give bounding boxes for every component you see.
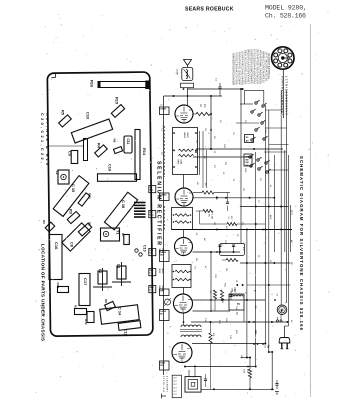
svg-text:1M: 1M [221,300,223,303]
svg-text:R5: R5 [61,110,66,116]
svg-text:C 18: C 18 [121,200,126,209]
svg-text:3D13: 3D13 [158,269,160,274]
svg-text:R2: R2 [42,220,46,224]
svg-text:VUHVHAC20BHC8B7: VUHVHAC20BHC8B7 [281,76,285,116]
svg-text:MODEL 9280,: MODEL 9280, [265,4,307,11]
svg-text:SW: SW [245,157,248,159]
svg-text:R6: R6 [113,139,117,143]
svg-text:OUT: OUT [173,378,177,380]
svg-text:SW: SW [245,162,248,164]
svg-text:OUT: OUT [173,391,177,393]
svg-text:AVC: AVC [269,215,272,220]
svg-text:02UO: 02UO [186,133,188,138]
svg-text:C13: C13 [143,245,147,252]
svg-text:8UCV: 8UCV [161,269,163,275]
svg-text:C 15: C 15 [71,184,76,193]
svg-text:4LDCNDM7: 4LDCNDM7 [166,376,169,392]
svg-text:12BE6: 12BE6 [160,108,167,110]
svg-text:12A: 12A [149,249,153,252]
svg-text:R7: R7 [121,233,125,237]
svg-text:VAC: VAC [149,213,154,216]
svg-text:HRVI: HRVI [177,160,179,165]
svg-text:C9: C9 [68,151,73,157]
svg-text:C16: C16 [54,242,59,250]
svg-text:C 14: C 14 [118,307,123,316]
svg-text:OUT: OUT [173,384,177,386]
svg-text:R4: R4 [97,143,102,149]
svg-text:47K: 47K [235,330,237,334]
svg-text:R14: R14 [142,148,147,156]
svg-text:R13: R13 [56,283,60,289]
svg-text:C17: C17 [83,278,88,286]
svg-text:OUT: OUT [173,388,177,390]
svg-text:R15: R15 [115,97,120,105]
svg-text:OSC: OSC [244,168,246,173]
svg-text:Ch. 528.166: Ch. 528.166 [265,12,306,19]
svg-text:C8: C8 [70,242,75,248]
svg-text:PH: PH [290,262,292,265]
svg-text:R8: R8 [104,299,108,303]
svg-text:47K: 47K [215,196,217,200]
svg-text:AUG2: AUG2 [183,133,186,138]
svg-text:OUT: OUT [173,381,177,383]
svg-text:117V: 117V [290,210,292,215]
svg-text:1/2: 1/2 [160,105,163,107]
svg-text:L3: L3 [117,264,121,268]
svg-text:SEARS ROEBUCK: SEARS ROEBUCK [185,7,234,13]
svg-text:LOCATION OF PARTS UNDER CHASSI: LOCATION OF PARTS UNDER CHASSIS [41,244,46,341]
svg-text:N10MR8TRDHHCLA: N10MR8TRDHHCLA [267,53,271,79]
svg-text:BC: BC [246,141,250,143]
svg-text:R3: R3 [69,209,74,215]
svg-text:R9: R9 [88,222,92,226]
svg-text:12BA6: 12BA6 [160,193,167,196]
svg-text:SH5: SH5 [231,289,233,293]
svg-text:SCHEMATIC DIAGRAM FOR SILVERTO: SCHEMATIC DIAGRAM FOR SILVERTONE CHASSIS… [299,156,304,331]
svg-text:5F2OLIEG: 5F2OLIEG [162,376,164,393]
svg-text:C11: C11 [126,139,130,145]
svg-text:C19: C19 [108,164,113,172]
svg-text:22K: 22K [223,144,225,148]
svg-text:S5O: S5O [234,289,236,293]
svg-text:AC: AC [290,240,293,243]
svg-text:2M: 2M [225,268,227,271]
svg-text:C10: C10 [86,112,91,119]
svg-text:R12: R12 [84,319,88,325]
svg-text:2.2M: 2.2M [211,214,213,219]
svg-text:C12: C12 [124,329,128,336]
svg-text:L2: L2 [98,269,102,273]
svg-text:LCTHI1SGUE398VV: LCTHI1SGUE398VV [285,76,289,115]
svg-text:1M: 1M [213,222,215,225]
svg-text:R10: R10 [88,193,92,199]
svg-text:R16: R16 [90,80,95,88]
svg-text:1M: 1M [203,104,206,107]
svg-text:R1: R1 [74,305,78,309]
svg-text:OUT: OUT [173,394,177,396]
svg-text:SW: SW [245,165,248,167]
svg-text:SW: SW [245,159,248,161]
